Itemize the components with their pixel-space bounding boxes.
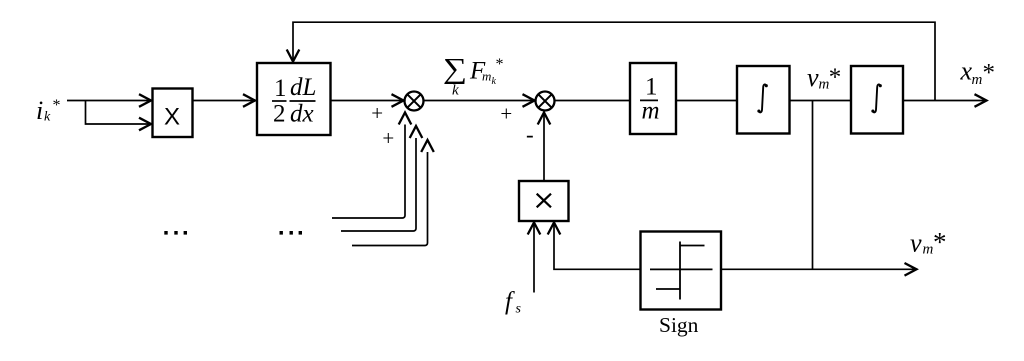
svg-text:s: s: [516, 302, 522, 317]
label f_s: [505, 288, 522, 317]
svg-text:dx: dx: [290, 101, 314, 128]
wire input i_k* to multiplier X: [67, 94, 151, 107]
wire phase input 1: [332, 113, 411, 219]
ellipsis dots right: [280, 231, 303, 235]
node v_m junction wire down: [812, 101, 814, 270]
svg-text:m: m: [923, 242, 934, 258]
multiplier block X: [153, 89, 193, 138]
label v_m* bottom: [910, 227, 947, 258]
integrator block 1: [737, 66, 790, 134]
svg-text:Sign: Sign: [659, 313, 699, 337]
wire output x_m*: [903, 94, 987, 107]
wire feedback from x_m* line to dL/dx block: [287, 22, 935, 100]
summer S2: [536, 92, 555, 111]
svg-text:*: *: [496, 56, 504, 73]
svg-text:*: *: [829, 64, 842, 91]
integrator block 2: [851, 66, 903, 134]
svg-text:v: v: [910, 229, 922, 258]
wire multiplier X to block dL/dx: [193, 94, 256, 107]
svg-text:1: 1: [274, 75, 287, 102]
wire input branch to multiplier X: [86, 101, 152, 131]
wire f_s input: [528, 223, 541, 293]
wire sign output to multiplier: [548, 223, 641, 270]
label i_k*: [36, 96, 61, 125]
label sum F_mk*: [443, 52, 504, 98]
multiplier block lower: [519, 181, 569, 221]
label x_m*: [960, 57, 996, 88]
svg-text:*: *: [983, 60, 996, 87]
wire phase input 2: [341, 126, 422, 231]
wire 1/m to integrator 1: [676, 100, 737, 102]
svg-text:∑: ∑: [443, 52, 467, 84]
svg-text:m: m: [642, 97, 660, 124]
svg-text:X: X: [164, 104, 180, 131]
svg-text:k: k: [452, 83, 459, 99]
wire phase input 3: [352, 140, 434, 246]
svg-text:m: m: [972, 72, 983, 88]
wire S1 to summer S2: [424, 94, 535, 107]
label v_m* top: [807, 63, 841, 93]
sign block: [641, 232, 722, 310]
wire v_m* output: [813, 263, 917, 276]
block 1/m: [630, 63, 676, 134]
wire integrator 1 to integrator 2: [790, 100, 852, 102]
wire v_m node to sign block input: [721, 268, 813, 270]
svg-text:+: +: [371, 101, 383, 125]
svg-text:*: *: [53, 97, 61, 114]
svg-text:dL: dL: [290, 74, 316, 101]
block 1/2 dL/dx: [257, 63, 331, 135]
svg-text:m: m: [482, 69, 491, 84]
svg-text:v: v: [807, 63, 819, 92]
svg-text:f: f: [505, 288, 515, 315]
svg-text:2: 2: [273, 101, 286, 128]
svg-text:k: k: [492, 76, 497, 87]
svg-text:+: +: [382, 126, 394, 150]
wire S2 to block 1/m: [555, 100, 631, 102]
wire dL/dx block to summer S1: [331, 94, 404, 107]
ellipsis dots left: [164, 231, 187, 235]
svg-text:+: +: [500, 102, 512, 126]
wire multiplier to summer S2: [538, 113, 551, 182]
summer S1: [405, 92, 424, 111]
svg-text:i: i: [36, 96, 43, 125]
svg-text:-: -: [526, 122, 534, 147]
svg-text:*: *: [933, 227, 947, 257]
svg-text:k: k: [44, 110, 51, 125]
